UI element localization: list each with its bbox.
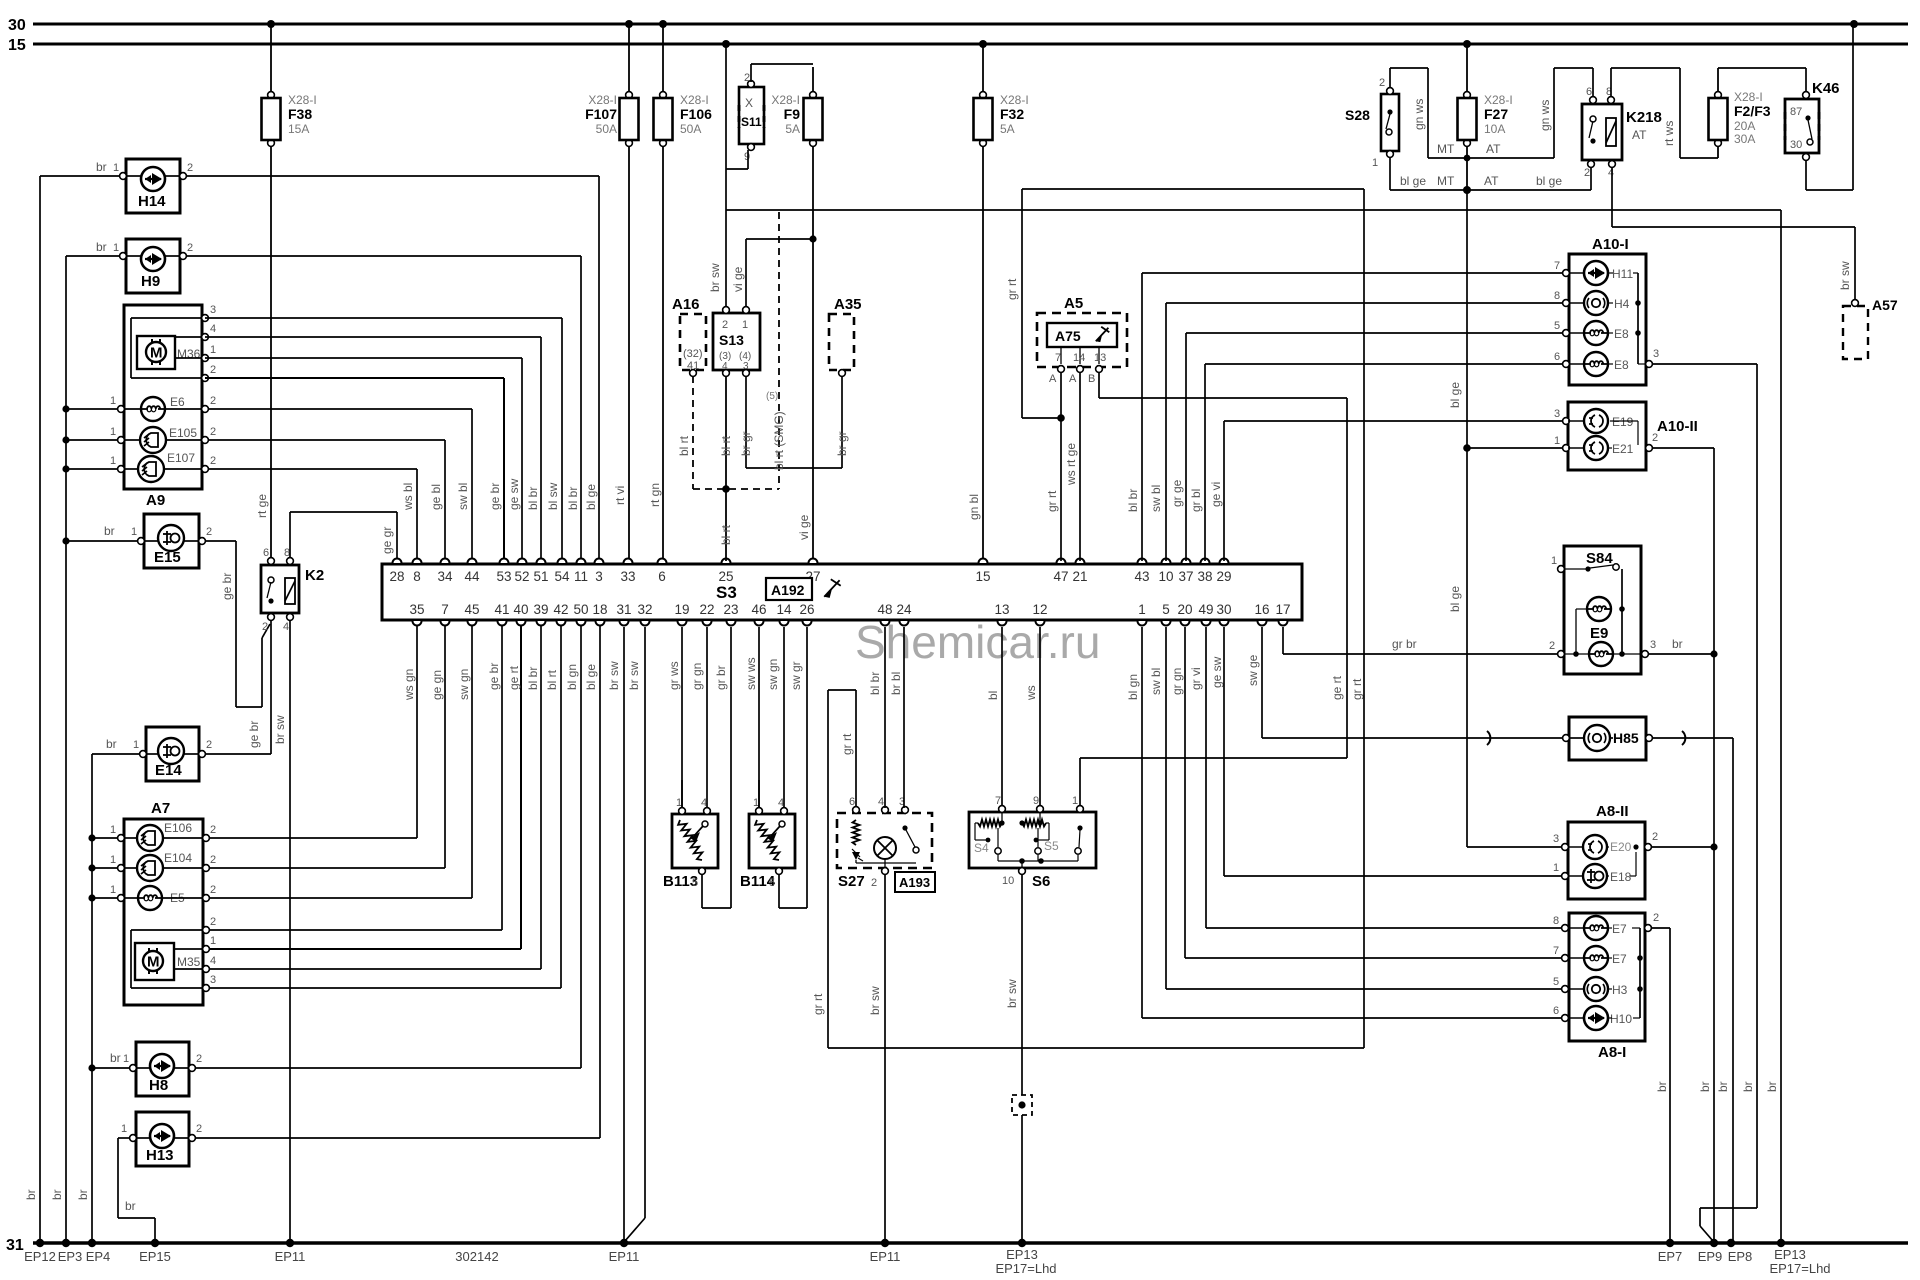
svg-text:18: 18 bbox=[592, 602, 607, 617]
svg-text:bl gn: bl gn bbox=[1126, 674, 1140, 700]
svg-text:A7: A7 bbox=[151, 800, 170, 817]
svg-text:1: 1 bbox=[742, 319, 748, 331]
svg-text:1: 1 bbox=[1072, 795, 1078, 807]
svg-text:gr rt: gr rt bbox=[840, 733, 854, 755]
svg-text:ge br: ge br bbox=[487, 663, 501, 690]
svg-text:7: 7 bbox=[995, 795, 1001, 807]
svg-text:3: 3 bbox=[210, 974, 216, 986]
svg-text:50A: 50A bbox=[680, 122, 701, 136]
svg-text:25: 25 bbox=[718, 569, 733, 584]
svg-text:A57: A57 bbox=[1872, 297, 1898, 313]
svg-text:5A: 5A bbox=[1000, 122, 1015, 136]
svg-text:F9: F9 bbox=[784, 106, 801, 122]
svg-text:bl br: bl br bbox=[526, 667, 540, 690]
svg-text:7: 7 bbox=[441, 602, 449, 617]
svg-text:K46: K46 bbox=[1812, 80, 1840, 97]
svg-text:H3: H3 bbox=[1612, 983, 1628, 997]
svg-text:H8: H8 bbox=[149, 1077, 168, 1094]
svg-text:bl rt: bl rt bbox=[719, 524, 733, 545]
svg-text:br: br bbox=[96, 240, 107, 254]
svg-text:br sw: br sw bbox=[1005, 979, 1019, 1008]
svg-text:32: 32 bbox=[637, 602, 652, 617]
svg-text:S28: S28 bbox=[1345, 107, 1370, 123]
svg-text:E19: E19 bbox=[1612, 415, 1634, 429]
svg-text:sw gn: sw gn bbox=[457, 669, 471, 700]
svg-text:A9: A9 bbox=[146, 492, 165, 509]
svg-text:10: 10 bbox=[1002, 875, 1014, 887]
svg-text:1: 1 bbox=[133, 739, 139, 751]
svg-text:gr ws: gr ws bbox=[667, 661, 681, 690]
svg-text:E104: E104 bbox=[164, 851, 192, 865]
svg-text:51: 51 bbox=[533, 569, 548, 584]
svg-text:A10-I: A10-I bbox=[1592, 236, 1629, 253]
svg-text:gr rt: gr rt bbox=[1350, 678, 1364, 700]
svg-text:bl ge: bl ge bbox=[584, 484, 598, 510]
svg-text:A8-I: A8-I bbox=[1598, 1044, 1626, 1061]
svg-text:X28-I: X28-I bbox=[588, 93, 617, 107]
svg-text:4: 4 bbox=[722, 361, 728, 372]
svg-text:17: 17 bbox=[1275, 602, 1290, 617]
svg-text:ge gn: ge gn bbox=[430, 670, 444, 700]
svg-text:E18: E18 bbox=[1610, 870, 1632, 884]
svg-text:50: 50 bbox=[573, 602, 588, 617]
svg-text:br: br bbox=[96, 160, 107, 174]
svg-text:13: 13 bbox=[994, 602, 1009, 617]
svg-text:K2: K2 bbox=[305, 567, 324, 584]
svg-text:F38: F38 bbox=[288, 106, 312, 122]
svg-text:9: 9 bbox=[1033, 795, 1039, 807]
svg-text:A: A bbox=[1069, 373, 1077, 385]
svg-text:E6: E6 bbox=[170, 395, 185, 409]
svg-text:S6: S6 bbox=[1032, 873, 1050, 890]
svg-text:rt ge: rt ge bbox=[255, 494, 269, 518]
svg-text:br gr: br gr bbox=[739, 431, 753, 456]
svg-text:4: 4 bbox=[210, 955, 216, 967]
svg-text:M35: M35 bbox=[177, 955, 201, 969]
svg-text:rt gn: rt gn bbox=[648, 483, 662, 507]
svg-text:14: 14 bbox=[776, 602, 792, 617]
svg-text:EP9: EP9 bbox=[1698, 1249, 1723, 1264]
svg-text:1: 1 bbox=[210, 344, 216, 356]
svg-text:br sw: br sw bbox=[868, 986, 882, 1015]
svg-text:gr gn: gr gn bbox=[1170, 668, 1184, 695]
svg-text:bl ge: bl ge bbox=[584, 664, 598, 690]
svg-text:S11: S11 bbox=[741, 115, 762, 129]
svg-text:A10-II: A10-II bbox=[1657, 418, 1698, 435]
svg-text:X: X bbox=[745, 96, 753, 110]
svg-text:EP4: EP4 bbox=[86, 1249, 111, 1264]
svg-text:2: 2 bbox=[196, 1123, 202, 1135]
svg-text:ge sw: ge sw bbox=[1210, 656, 1224, 688]
svg-text:54: 54 bbox=[554, 569, 570, 584]
svg-text:11: 11 bbox=[574, 569, 588, 584]
svg-text:br: br bbox=[1698, 1081, 1712, 1092]
svg-text:br: br bbox=[1716, 1081, 1730, 1092]
svg-text:A16: A16 bbox=[672, 296, 700, 313]
svg-text:1: 1 bbox=[121, 1123, 127, 1135]
svg-text:EP13: EP13 bbox=[1006, 1247, 1038, 1262]
svg-text:29: 29 bbox=[1216, 569, 1231, 584]
svg-text:bl br: bl br bbox=[868, 672, 882, 695]
svg-text:EP7: EP7 bbox=[1658, 1249, 1683, 1264]
svg-text:3: 3 bbox=[1553, 833, 1559, 845]
svg-text:EP11: EP11 bbox=[275, 1249, 306, 1264]
svg-text:X28-I: X28-I bbox=[771, 93, 800, 107]
svg-text:19: 19 bbox=[674, 602, 689, 617]
svg-text:br: br bbox=[125, 1199, 136, 1213]
svg-text:sw bl: sw bl bbox=[1149, 485, 1163, 512]
svg-text:gr bl: gr bl bbox=[1189, 489, 1203, 512]
svg-text:A8-II: A8-II bbox=[1596, 803, 1629, 820]
svg-text:EP13: EP13 bbox=[1774, 1247, 1806, 1262]
svg-text:7: 7 bbox=[1055, 352, 1061, 364]
svg-text:50A: 50A bbox=[596, 122, 617, 136]
svg-text:br sw: br sw bbox=[1838, 261, 1852, 290]
svg-text:26: 26 bbox=[799, 602, 814, 617]
svg-text:45: 45 bbox=[464, 602, 479, 617]
svg-text:(5): (5) bbox=[766, 391, 778, 402]
svg-text:20A: 20A bbox=[1734, 119, 1755, 133]
svg-text:br sw: br sw bbox=[607, 661, 621, 690]
svg-text:28: 28 bbox=[389, 569, 404, 584]
svg-text:E107: E107 bbox=[167, 451, 195, 465]
svg-text:39: 39 bbox=[533, 602, 548, 617]
svg-text:br: br bbox=[1672, 637, 1683, 651]
svg-text:52: 52 bbox=[514, 569, 529, 584]
svg-text:8: 8 bbox=[1553, 915, 1559, 927]
svg-text:bl ge: bl ge bbox=[1448, 586, 1462, 612]
svg-text:EP11: EP11 bbox=[609, 1249, 640, 1264]
svg-text:7: 7 bbox=[1554, 260, 1560, 272]
svg-text:bl br: bl br bbox=[566, 487, 580, 510]
svg-text:37: 37 bbox=[1178, 569, 1193, 584]
svg-text:2: 2 bbox=[262, 621, 268, 633]
svg-text:13: 13 bbox=[1094, 352, 1106, 364]
svg-text:ws: ws bbox=[1024, 685, 1038, 701]
svg-text:br: br bbox=[104, 524, 115, 538]
svg-text:2: 2 bbox=[871, 877, 877, 889]
svg-text:K218: K218 bbox=[1626, 109, 1662, 126]
svg-text:53: 53 bbox=[496, 569, 511, 584]
svg-text:4: 4 bbox=[878, 796, 884, 808]
svg-text:2: 2 bbox=[722, 319, 728, 331]
svg-text:6: 6 bbox=[1553, 1005, 1559, 1017]
svg-text:bl ge: bl ge bbox=[1536, 174, 1562, 188]
svg-text:rt ws: rt ws bbox=[1662, 121, 1676, 146]
svg-text:X28-I: X28-I bbox=[680, 93, 709, 107]
svg-text:X28-I: X28-I bbox=[288, 93, 317, 107]
svg-text:1: 1 bbox=[110, 884, 116, 896]
svg-text:gr rt: gr rt bbox=[811, 993, 825, 1015]
svg-text:46: 46 bbox=[751, 602, 766, 617]
svg-text:X28-I: X28-I bbox=[1734, 90, 1763, 104]
svg-text:sw gn: sw gn bbox=[766, 659, 780, 690]
svg-text:gr rt: gr rt bbox=[1045, 490, 1059, 512]
svg-text:MT: MT bbox=[1437, 142, 1455, 156]
svg-text:3: 3 bbox=[1554, 408, 1560, 420]
svg-text:15A: 15A bbox=[288, 122, 309, 136]
svg-text:E106: E106 bbox=[164, 821, 192, 835]
svg-text:2: 2 bbox=[744, 72, 750, 84]
svg-text:br: br bbox=[110, 1051, 121, 1065]
svg-text:5: 5 bbox=[1162, 602, 1170, 617]
svg-text:bl: bl bbox=[986, 691, 1000, 700]
svg-text:br bl: br bl bbox=[889, 672, 903, 695]
svg-text:30A: 30A bbox=[1734, 132, 1755, 146]
svg-text:6: 6 bbox=[263, 547, 269, 559]
svg-text:43: 43 bbox=[1134, 569, 1149, 584]
svg-text:E105: E105 bbox=[169, 426, 197, 440]
svg-text:1: 1 bbox=[113, 242, 119, 254]
svg-text:gr vi: gr vi bbox=[1189, 667, 1203, 690]
svg-text:2: 2 bbox=[1584, 167, 1590, 179]
svg-text:gr rt: gr rt bbox=[1005, 278, 1019, 300]
svg-text:bl gn: bl gn bbox=[565, 664, 579, 690]
svg-text:H4: H4 bbox=[1614, 297, 1630, 311]
svg-text:E15: E15 bbox=[154, 549, 181, 566]
svg-text:6: 6 bbox=[1586, 86, 1592, 98]
svg-text:S5: S5 bbox=[1044, 839, 1059, 853]
svg-text:S84: S84 bbox=[1586, 550, 1613, 567]
svg-text:gn bl: gn bl bbox=[967, 494, 981, 520]
svg-text:5: 5 bbox=[1553, 976, 1559, 988]
svg-text:F27: F27 bbox=[1484, 106, 1508, 122]
svg-text:1: 1 bbox=[1372, 157, 1378, 169]
svg-text:AT: AT bbox=[1486, 142, 1501, 156]
svg-text:H10: H10 bbox=[1610, 1012, 1632, 1026]
svg-text:2: 2 bbox=[210, 455, 216, 467]
svg-text:MT: MT bbox=[1437, 174, 1455, 188]
svg-text:31: 31 bbox=[6, 1237, 24, 1254]
svg-text:6: 6 bbox=[849, 796, 855, 808]
svg-text:br: br bbox=[50, 1189, 64, 1200]
svg-text:15: 15 bbox=[8, 37, 26, 54]
svg-text:8: 8 bbox=[413, 569, 421, 584]
svg-text:2: 2 bbox=[206, 739, 212, 751]
svg-text:35: 35 bbox=[409, 602, 424, 617]
svg-text:vi ge: vi ge bbox=[797, 514, 811, 540]
svg-text:1: 1 bbox=[110, 854, 116, 866]
svg-text:30: 30 bbox=[1216, 602, 1231, 617]
svg-text:4: 4 bbox=[283, 621, 289, 633]
svg-text:F2/F3: F2/F3 bbox=[1734, 103, 1771, 119]
svg-text:2: 2 bbox=[210, 426, 216, 438]
svg-text:3: 3 bbox=[743, 361, 749, 372]
svg-text:2: 2 bbox=[210, 884, 216, 896]
svg-text:20: 20 bbox=[1177, 602, 1192, 617]
svg-text:9: 9 bbox=[744, 151, 750, 163]
svg-text:47: 47 bbox=[1053, 569, 1068, 584]
svg-text:1: 1 bbox=[131, 526, 137, 538]
svg-text:H85: H85 bbox=[1613, 730, 1639, 746]
svg-text:EP15: EP15 bbox=[139, 1249, 171, 1264]
svg-text:3: 3 bbox=[210, 304, 216, 316]
svg-text:ws gn: ws gn bbox=[402, 669, 416, 701]
svg-text:E9: E9 bbox=[1590, 625, 1608, 642]
svg-text:6: 6 bbox=[1554, 351, 1560, 363]
svg-text:42: 42 bbox=[553, 602, 568, 617]
svg-text:gr br: gr br bbox=[714, 665, 728, 690]
svg-text:br: br bbox=[106, 737, 117, 751]
svg-text:A193: A193 bbox=[899, 875, 930, 890]
svg-text:bl ge: bl ge bbox=[1448, 382, 1462, 408]
svg-text:2: 2 bbox=[206, 526, 212, 538]
svg-text:br: br bbox=[24, 1189, 38, 1200]
svg-text:2: 2 bbox=[210, 395, 216, 407]
svg-text:X28-I: X28-I bbox=[1484, 93, 1513, 107]
svg-text:8: 8 bbox=[1554, 290, 1560, 302]
svg-text:S13: S13 bbox=[719, 332, 744, 348]
svg-text:5: 5 bbox=[769, 877, 775, 889]
svg-text:M: M bbox=[150, 345, 163, 362]
svg-text:gr ge: gr ge bbox=[1170, 479, 1184, 507]
svg-text:41: 41 bbox=[494, 602, 509, 617]
svg-text:rt vi: rt vi bbox=[613, 486, 627, 505]
svg-text:E20: E20 bbox=[1610, 840, 1632, 854]
svg-text:EP17=Lhd: EP17=Lhd bbox=[995, 1261, 1056, 1276]
svg-text:1: 1 bbox=[110, 455, 116, 467]
svg-text:10: 10 bbox=[1158, 569, 1173, 584]
svg-text:2: 2 bbox=[187, 162, 193, 174]
svg-text:A75: A75 bbox=[1055, 328, 1081, 344]
svg-text:87: 87 bbox=[1790, 106, 1802, 118]
svg-text:gn ws: gn ws bbox=[1412, 99, 1426, 130]
svg-text:2: 2 bbox=[210, 824, 216, 836]
svg-text:S27: S27 bbox=[838, 873, 865, 890]
svg-text:1: 1 bbox=[110, 395, 116, 407]
svg-text:gr br: gr br bbox=[1392, 637, 1417, 651]
svg-text:B: B bbox=[1088, 373, 1095, 385]
svg-text:1: 1 bbox=[1554, 435, 1560, 447]
svg-text:33: 33 bbox=[620, 569, 635, 584]
svg-text:30: 30 bbox=[1790, 139, 1802, 151]
svg-text:vi ge: vi ge bbox=[731, 266, 745, 292]
svg-text:H9: H9 bbox=[141, 273, 160, 290]
svg-text:ge vi: ge vi bbox=[1209, 482, 1223, 507]
svg-text:E7: E7 bbox=[1612, 952, 1627, 966]
svg-text:2: 2 bbox=[1549, 640, 1555, 652]
svg-text:4: 4 bbox=[210, 323, 216, 335]
svg-text:ws bl: ws bl bbox=[401, 483, 415, 511]
svg-text:5A: 5A bbox=[785, 122, 800, 136]
svg-text:22: 22 bbox=[699, 602, 714, 617]
svg-text:H14: H14 bbox=[138, 193, 166, 210]
svg-text:ge sw: ge sw bbox=[507, 478, 521, 510]
svg-text:48: 48 bbox=[877, 602, 892, 617]
svg-text:sw bl: sw bl bbox=[1149, 668, 1163, 695]
svg-text:1: 1 bbox=[1138, 602, 1146, 617]
svg-text:A5: A5 bbox=[1064, 295, 1083, 312]
svg-text:1: 1 bbox=[1551, 555, 1557, 567]
svg-text:10A: 10A bbox=[1484, 122, 1505, 136]
svg-text:F32: F32 bbox=[1000, 106, 1024, 122]
svg-text:EP11: EP11 bbox=[870, 1249, 901, 1264]
svg-text:M36: M36 bbox=[177, 347, 201, 361]
svg-text:(32): (32) bbox=[683, 348, 703, 360]
svg-text:6: 6 bbox=[658, 569, 666, 584]
svg-text:2: 2 bbox=[210, 364, 216, 376]
svg-text:A192: A192 bbox=[771, 582, 805, 598]
svg-text:2: 2 bbox=[210, 916, 216, 928]
svg-text:2: 2 bbox=[196, 1053, 202, 1065]
svg-text:E7: E7 bbox=[1612, 922, 1627, 936]
svg-text:S3: S3 bbox=[716, 583, 737, 602]
svg-text:br gr: br gr bbox=[835, 431, 849, 456]
svg-text:2: 2 bbox=[1652, 831, 1658, 843]
svg-text:bl rt: bl rt bbox=[719, 435, 733, 456]
svg-text:24: 24 bbox=[896, 602, 912, 617]
svg-text:br: br bbox=[76, 1189, 90, 1200]
svg-text:br sw: br sw bbox=[708, 263, 722, 292]
svg-text:38: 38 bbox=[1197, 569, 1212, 584]
svg-text:2: 2 bbox=[1653, 912, 1659, 924]
svg-text:E8: E8 bbox=[1614, 358, 1629, 372]
svg-text:4: 4 bbox=[1608, 167, 1614, 179]
svg-text:ge rt: ge rt bbox=[1330, 675, 1344, 700]
svg-text:40: 40 bbox=[513, 602, 528, 617]
svg-text:EP3: EP3 bbox=[58, 1249, 83, 1264]
svg-text:5: 5 bbox=[692, 877, 698, 889]
svg-text:E14: E14 bbox=[155, 762, 182, 779]
svg-text:ge br: ge br bbox=[488, 483, 502, 510]
svg-text:A35: A35 bbox=[834, 296, 862, 313]
svg-text:S4: S4 bbox=[974, 841, 989, 855]
svg-text:2: 2 bbox=[1379, 77, 1385, 89]
svg-text:1: 1 bbox=[123, 1053, 129, 1065]
svg-text:ws rt ge: ws rt ge bbox=[1064, 443, 1078, 486]
svg-text:F106: F106 bbox=[680, 106, 712, 122]
svg-text:X28-I: X28-I bbox=[1000, 93, 1029, 107]
svg-text:3: 3 bbox=[595, 569, 603, 584]
svg-text:16: 16 bbox=[1254, 602, 1269, 617]
svg-text:bl rt: bl rt bbox=[677, 435, 691, 456]
svg-text:ge bl: ge bl bbox=[429, 484, 443, 510]
svg-text:bl rt (SMG): bl rt (SMG) bbox=[772, 411, 786, 470]
svg-text:br sw: br sw bbox=[273, 715, 287, 744]
svg-text:br: br bbox=[1655, 1081, 1669, 1092]
svg-text:br: br bbox=[1765, 1081, 1779, 1092]
svg-text:44: 44 bbox=[464, 569, 480, 584]
svg-text:F107: F107 bbox=[585, 106, 617, 122]
svg-text:EP8: EP8 bbox=[1728, 1249, 1753, 1264]
svg-text:3: 3 bbox=[1650, 639, 1656, 651]
svg-text:23: 23 bbox=[723, 602, 738, 617]
svg-text:bl rt: bl rt bbox=[545, 669, 559, 690]
svg-text:ge gr: ge gr bbox=[380, 527, 394, 554]
svg-text:2: 2 bbox=[1652, 432, 1658, 444]
svg-text:31: 31 bbox=[616, 602, 631, 617]
svg-text:49: 49 bbox=[1198, 602, 1213, 617]
svg-text:H11: H11 bbox=[1612, 267, 1633, 281]
svg-text:EP17=Lhd: EP17=Lhd bbox=[1769, 1261, 1830, 1276]
svg-text:sw bl: sw bl bbox=[456, 483, 470, 510]
svg-text:br sw: br sw bbox=[627, 661, 641, 690]
svg-text:1: 1 bbox=[1553, 862, 1559, 874]
svg-text:bl br: bl br bbox=[526, 487, 540, 510]
svg-text:br: br bbox=[1741, 1081, 1755, 1092]
svg-text:3: 3 bbox=[1653, 348, 1659, 360]
svg-text:bl sw: bl sw bbox=[546, 482, 560, 510]
svg-text:EP12: EP12 bbox=[24, 1249, 56, 1264]
svg-text:sw ge: sw ge bbox=[1246, 654, 1260, 686]
svg-text:302142: 302142 bbox=[455, 1249, 498, 1264]
svg-text:M: M bbox=[147, 954, 160, 971]
svg-text:7: 7 bbox=[1553, 945, 1559, 957]
svg-text:15: 15 bbox=[975, 569, 990, 584]
svg-text:sw ws: sw ws bbox=[744, 657, 758, 690]
svg-text:12: 12 bbox=[1032, 602, 1047, 617]
svg-text:Shemicar.ru: Shemicar.ru bbox=[855, 616, 1100, 668]
